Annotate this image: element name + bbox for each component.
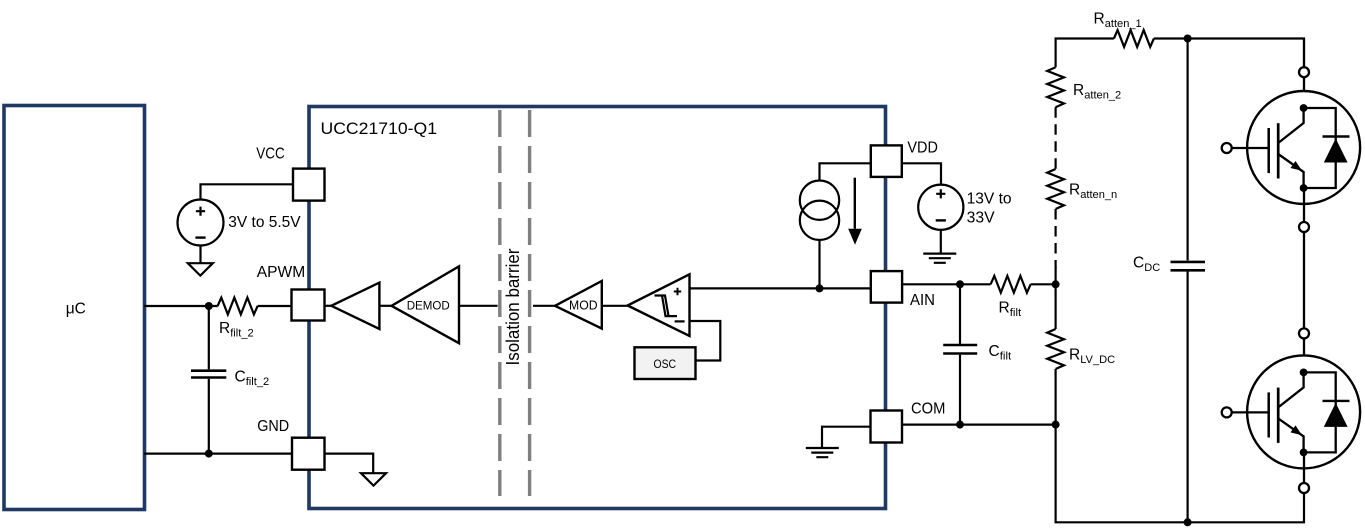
wire APWM pin to buffer (325, 305, 332, 307)
node junction top rail / CDC (1184, 35, 1192, 43)
gate driver UCC21710-Q1 box (309, 107, 886, 509)
wire COM pin to ground (822, 427, 871, 448)
svg-text:UCC21710-Q1: UCC21710-Q1 (321, 119, 438, 138)
wire terminal to upper IGBT (1303, 77, 1305, 108)
wire Cfilt2 bottom (208, 379, 210, 454)
comparator minus sign (675, 320, 685, 322)
IGBT Q1 diode triangle (1324, 139, 1348, 163)
wire chain bottom to bottom rail (1056, 425, 1304, 523)
V1 plus sign (196, 207, 205, 216)
output buffer triangle (331, 283, 379, 329)
comparator hysteresis symbol (655, 296, 678, 317)
svg-text:VCC: VCC (256, 146, 285, 163)
svg-text:Isolation barrier: Isolation barrier (503, 248, 523, 365)
IGBT Q2 diode branch wire (1304, 372, 1336, 452)
node junction APWM/Cfilt2 (205, 302, 213, 310)
IGBT Q1 diode cathode bar (1323, 135, 1350, 137)
wire phase node between IGBTs (1303, 232, 1305, 328)
wire Cfilt top (959, 284, 961, 344)
voltage source V2 13V-33V circle (918, 185, 963, 230)
IGBT Q2 collector lead (1278, 372, 1303, 407)
capacitor C_filt_2 (191, 371, 226, 378)
resistor R_atten_2 (1047, 67, 1064, 107)
ground below V2 (923, 254, 956, 263)
IGBT Q2 collector node (1300, 369, 1308, 377)
svg-text:3V to 5.5V: 3V to 5.5V (228, 214, 301, 231)
resistor R_filt_2 (218, 298, 258, 315)
svg-text:MOD: MOD (569, 299, 598, 313)
IGBT Q2 diode triangle (1324, 403, 1348, 427)
IGBT Q2 body bar (1277, 388, 1280, 443)
microcontroller uC box (4, 106, 145, 510)
IGBT Q1 gate bar (1267, 128, 1270, 173)
wire comparator minus to OSC (690, 321, 721, 361)
node junction Rfilt/chain (1052, 280, 1060, 288)
V2 plus sign (936, 189, 945, 198)
isolation barrier dashed line right (528, 110, 531, 496)
lower IGBT emitter terminal circle (1299, 483, 1309, 493)
wire Rfilt to attenuator chain (1031, 283, 1056, 285)
IGBT Q1 emitter node (1300, 184, 1308, 192)
DEMOD triangle U-demod (392, 266, 460, 343)
wire Cfilt bottom (959, 355, 961, 425)
wire DEMOD to isolation barrier (459, 305, 498, 307)
current source I1 bottom circle (800, 201, 839, 240)
V2 minus sign (936, 219, 946, 221)
MOD triangle U-mod (555, 281, 602, 329)
wire top rail corner to Ratten1 (1056, 39, 1114, 68)
ground at COM (806, 448, 839, 457)
ground below V1 (188, 263, 213, 275)
IGBT Q1 gate wire (1232, 147, 1269, 149)
wire AIN junction to RLVDC (1054, 284, 1056, 329)
voltage source V1 3V-5.5V circle (178, 200, 224, 246)
svg-text:APWM: APWM (257, 264, 305, 281)
pin VCC box (293, 169, 325, 201)
node junction current source / AIN (816, 284, 824, 292)
oscillator OSC box (635, 347, 696, 379)
IGBT Q1 diode branch wire (1304, 108, 1336, 188)
wire isolation barrier to MOD (533, 305, 555, 307)
capacitor C_DC (1171, 262, 1206, 270)
IGBT Q1 emitter lead (1278, 154, 1303, 188)
IGBT Q1 collector node (1300, 104, 1308, 112)
wire buffer to DEMOD (379, 305, 391, 307)
comparator plus sign (674, 288, 681, 295)
IGBT Q1 emitter arrow (1291, 161, 1303, 171)
wire AIN pin to Rfilt (902, 283, 991, 285)
IGBT Q2 gate bar (1267, 392, 1270, 437)
wire chain to AIN junction (1054, 267, 1056, 284)
lower IGBT collector terminal circle (1299, 328, 1309, 338)
IGBT Q2 diode cathode bar (1323, 400, 1350, 402)
wire MOD to comparator (602, 305, 628, 307)
wire lower IGBT emitter to terminal (1303, 452, 1305, 483)
node junction bottom rail / CDC (1184, 518, 1192, 526)
IGBT Q2 gate wire (1232, 411, 1269, 413)
node junction COM/RLVDC (1052, 421, 1060, 429)
resistor R_atten_n (1047, 169, 1064, 209)
current source arrow (854, 178, 856, 229)
wire comparator plus input to AIN (690, 287, 872, 289)
pin VDD box (871, 145, 902, 177)
wire terminal to lower IGBT (1303, 338, 1305, 372)
resistor R_filt (991, 276, 1031, 293)
pin APWM box (292, 290, 325, 321)
svg-text:OSC: OSC (654, 357, 677, 371)
wire Ratten1 to CDC junction (1154, 39, 1304, 68)
wire VDD pin to VDD source (902, 163, 941, 184)
svg-text:AIN: AIN (910, 292, 935, 309)
current source I1 top circle (800, 181, 839, 220)
IGBT Q2 circle (1247, 355, 1360, 468)
pin AIN box (871, 271, 902, 303)
V1 minus sign (195, 236, 205, 238)
svg-text:33V: 33V (967, 209, 996, 226)
IGBT Q1 gate terminal circle (1222, 143, 1232, 153)
wire VCC source to VCC pin (201, 184, 294, 199)
IGBT Q1 body bar (1277, 123, 1280, 178)
comparator U-comp triangle (628, 274, 690, 336)
wire V2 to ground (940, 230, 942, 254)
wire uC to GND pin (144, 453, 292, 455)
IGBT Q2 emitter arrow (1291, 425, 1303, 435)
IGBT Q1 circle (1247, 91, 1360, 204)
IGBT Q2 emitter lead (1278, 418, 1303, 452)
ground below GND pin (361, 473, 386, 485)
resistor R_atten_1 (1114, 30, 1154, 47)
svg-text:GND: GND (257, 418, 289, 435)
wire V1 to ground (199, 246, 201, 264)
wire upper IGBT emitter to terminal (1303, 188, 1305, 222)
wire Cfilt2 top (208, 306, 210, 369)
upper IGBT emitter terminal circle (1299, 222, 1309, 232)
node junction COM/Cfilt (956, 421, 964, 429)
upper IGBT collector terminal circle (1299, 67, 1309, 77)
isolation barrier dashed line left (498, 110, 501, 496)
svg-text:VDD: VDD (907, 139, 938, 156)
wire RLVDC to COM junction (1054, 369, 1056, 425)
wire Rfilt2 to APWM pin (258, 305, 292, 307)
node junction AIN/Cfilt (956, 280, 964, 288)
wire current source to AIN net (818, 240, 820, 288)
svg-text:μC: μC (66, 301, 86, 318)
IGBT Q1 collector lead (1278, 108, 1303, 143)
svg-text:COM: COM (911, 400, 945, 417)
svg-text:DEMOD: DEMOD (407, 299, 450, 313)
resistor R_LV_DC (1047, 329, 1064, 369)
svg-text:13V to: 13V to (967, 190, 1012, 207)
capacitor C_filt (943, 345, 977, 354)
wire COM pin to chain bottom (902, 424, 1056, 426)
wire GND pin to ground arrow (325, 454, 374, 474)
wire top rail to upper IGBT collector terminal (1303, 39, 1305, 68)
IGBT Q2 emitter node (1300, 449, 1308, 457)
dashed wire Rattenn to AIN junction (1054, 209, 1056, 268)
wire CDC top (1186, 39, 1188, 261)
wire uC to APWM pin (144, 305, 218, 307)
dashed wire Ratten2 to Rattenn (1054, 107, 1056, 169)
pin GND box (292, 438, 325, 470)
pin COM box (871, 411, 903, 443)
IGBT Q2 gate terminal circle (1222, 407, 1232, 417)
wire current source to VDD pin (820, 163, 871, 180)
wire CDC bottom (1186, 272, 1188, 523)
node junction GND/Cfilt2 (205, 450, 213, 458)
